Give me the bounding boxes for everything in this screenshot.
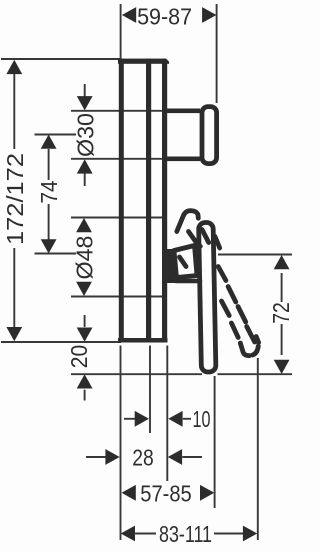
dashed lever edge dash u4 (inside hub) [180,257,187,267]
spout pipe top edge [167,109,200,114]
dashed lever left edge dash b2 [231,323,238,338]
dimension Ø30 (spout diameter) [73,84,99,186]
dashed lever bottom cap dash 2 [253,346,259,355]
handle stem fill between plate and hub [167,249,175,283]
escutcheon plate: bottom bar [118,338,168,343]
extension line right of spout cap (top) [216,4,218,103]
bottom extension line from lever end [214,376,216,508]
svg-text:20: 20 [66,345,92,369]
dashed lever edge dash u3 [189,232,198,244]
dashed lever left edge dash b1 [222,301,230,316]
svg-text:172/172: 172/172 [2,153,28,245]
bottom extension line from plate right face [166,346,168,482]
svg-text:72: 72 [268,302,294,324]
bottom extension line from dashed lever end [257,358,259,540]
Ø30 reference line top [71,110,167,112]
dashed lever top cap (hook) [177,211,199,232]
74 reference tick bottom [35,253,77,255]
dimension 172/172 (left) [2,60,28,342]
dimension 28 (row) [86,445,202,471]
dashed lever bottom cap dash 1 [240,343,249,356]
svg-text:57-85: 57-85 [140,481,192,507]
svg-text:83-111: 83-111 [159,521,212,547]
74 reference tick top [35,134,77,136]
dashed lever right edge dash a1 [218,267,226,281]
svg-text:Ø48: Ø48 [72,236,98,280]
escutcheon plate: top bar [118,59,169,64]
dimension 59-87 (top) [122,4,216,30]
20 reference tick bottom left [71,373,202,375]
spout pipe bottom edge [167,157,200,162]
bottom extension line from plate middle [149,346,151,434]
dashed lever edge dash u1 (inside solid lever) [202,230,209,243]
handle lever (solid, pointing down) [199,222,216,372]
dimension 74 (spout axis to handle axis) [36,135,62,254]
svg-text:74: 74 [36,181,62,204]
dashed lever right edge dash a3 [238,307,246,323]
dashed lever right edge dash a4 [247,327,255,343]
spout end cap [202,107,217,164]
svg-text:Ø30: Ø30 [73,113,99,157]
hub to lever connector (top) [194,243,201,248]
plate top-right corner chamfer [166,58,170,62]
bottom extension line from wall plane [120,346,122,541]
bottom extension line of body [1,341,121,343]
top extension line of body [1,58,121,60]
dashed lever edge dash u2 [215,237,220,249]
72 extension line top [218,254,292,256]
escutcheon plate: middle wall [146,59,151,343]
dimension 20 (plate bottom to lever end) [66,315,93,401]
dimension 83-111 (row) [121,521,258,547]
wall plane extension line (left vertical, top) [120,4,122,59]
escutcheon plate: right face [162,59,167,343]
dimension 72 (right, lever length) [268,255,294,374]
escutcheon plate: left face [119,59,124,343]
dashed lever right edge dash a2 [228,287,236,303]
72 extension line bottom segments [218,373,293,375]
hub bottom connector bar [176,279,200,284]
svg-text:10: 10 [193,406,211,432]
Ø48 reference line top [71,217,167,219]
dashed lever corner dash [256,337,258,343]
dimension Ø48 (rosette diameter) [72,218,98,296]
svg-text:59-87: 59-87 [137,4,192,30]
Ø30 reference line bottom [71,158,167,160]
dimension 57-85 (row) [122,481,215,507]
dimension 10 (row) [124,406,211,432]
Ø48 reference line bottom [71,296,167,298]
svg-text:28: 28 [132,445,154,471]
handle hub (cartridge cover) [174,246,197,278]
